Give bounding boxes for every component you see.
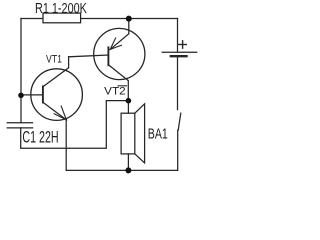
node dot left rail / VT1 base [18, 93, 24, 99]
svg-text:R1 1-200K: R1 1-200K [35, 0, 87, 17]
wire C1 bottom to speaker-top node [21, 101, 129, 149]
wire top rail right [81, 18, 178, 20]
svg-text:VT2: VT2 [104, 86, 126, 98]
svg-text:BA1: BA1 [148, 125, 168, 142]
wire top rail left [21, 18, 43, 20]
wire VT2 collector / speaker top lead [127, 101, 129, 114]
speaker BA1 [121, 104, 145, 171]
wire VT1 collector to VT2 base [69, 55, 109, 57]
wire bottom rail [66, 169, 177, 171]
resistor R1 [43, 13, 81, 23]
wire left rail [20, 19, 22, 123]
capacitor C1 [7, 123, 32, 128]
switch S1 [178, 113, 181, 170]
svg-text:VT1: VT1 [46, 54, 62, 66]
wire VT1 emitter down to bottom rail [65, 120, 67, 170]
node dot R1/VT2 emitter junction [126, 16, 132, 22]
node dot speaker bottom / bottom rail [125, 167, 131, 173]
overline above VT2 digit [118, 85, 127, 87]
battery GB1 [162, 19, 197, 110]
transistor VT1 [21, 57, 82, 121]
node dot VT2 collector / C1 / speaker [126, 98, 132, 104]
svg-text:C1 22H: C1 22H [22, 128, 58, 146]
transistor VT2 [94, 19, 145, 101]
plus sign of battery [179, 41, 187, 48]
